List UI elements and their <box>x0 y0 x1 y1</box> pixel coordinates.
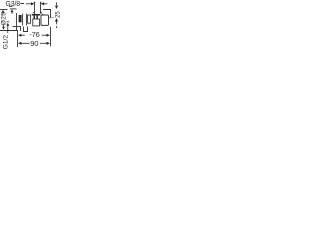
left mid down arrow <box>2 25 5 30</box>
arrow right at pipe <box>26 2 35 5</box>
body stem <box>34 16 36 20</box>
wire: right extension corner <box>43 10 51 18</box>
svg-text:-76: -76 <box>29 30 40 39</box>
body lower box <box>33 19 40 26</box>
pipe G3/8 right top tick <box>40 1 42 3</box>
small dash mark <box>7 20 9 23</box>
svg-text:Ø25: Ø25 <box>1 12 8 25</box>
wire: right extension lower part <box>50 27 52 47</box>
valve block 2 <box>27 14 31 26</box>
node: outlet nut U <box>24 27 28 32</box>
left up arrow 2 <box>11 9 14 14</box>
nut notch <box>42 13 44 15</box>
pipe G3/8 left top tick <box>34 1 36 3</box>
label dash after G3/8 <box>20 2 24 5</box>
wire: bottom edge left <box>13 26 22 28</box>
dim row 1: right arrow <box>42 34 50 37</box>
dim row 1: left arrow <box>18 34 25 37</box>
wire: small dash <box>9 5 13 7</box>
arrow left at pipe <box>41 2 48 5</box>
union nut square <box>41 15 49 25</box>
left mid up arrow <box>6 23 9 33</box>
wire: lower right extension stub <box>49 17 54 19</box>
right dim up arrow <box>55 18 58 28</box>
wire: second top-left extension line <box>10 8 17 10</box>
body shoulder <box>32 14 40 16</box>
pipe G3/8 right wall <box>40 2 42 14</box>
svg-text:25: 25 <box>55 11 61 18</box>
svg-text:G1/2: G1/2 <box>3 35 10 50</box>
valve block 1 (handle, dark) <box>19 14 23 26</box>
pipe left bottom flare <box>33 12 35 14</box>
dim row 2: right arrow <box>40 42 50 45</box>
svg-text:90: 90 <box>30 39 38 48</box>
node: flange plate <box>16 13 18 30</box>
wire: corner L extension <box>0 31 18 48</box>
wire: outlet left wall <box>20 27 22 32</box>
wire: top-left extension line <box>0 9 8 11</box>
dim row 2: left arrow <box>18 42 30 45</box>
right dim down arrow <box>55 2 58 9</box>
small dot mark <box>8 24 9 25</box>
pipe right bottom flare <box>41 12 43 14</box>
svg-text:G3/8: G3/8 <box>6 1 21 8</box>
pipe G3/8 left wall <box>34 2 36 14</box>
left up arrow 1 <box>2 10 5 15</box>
